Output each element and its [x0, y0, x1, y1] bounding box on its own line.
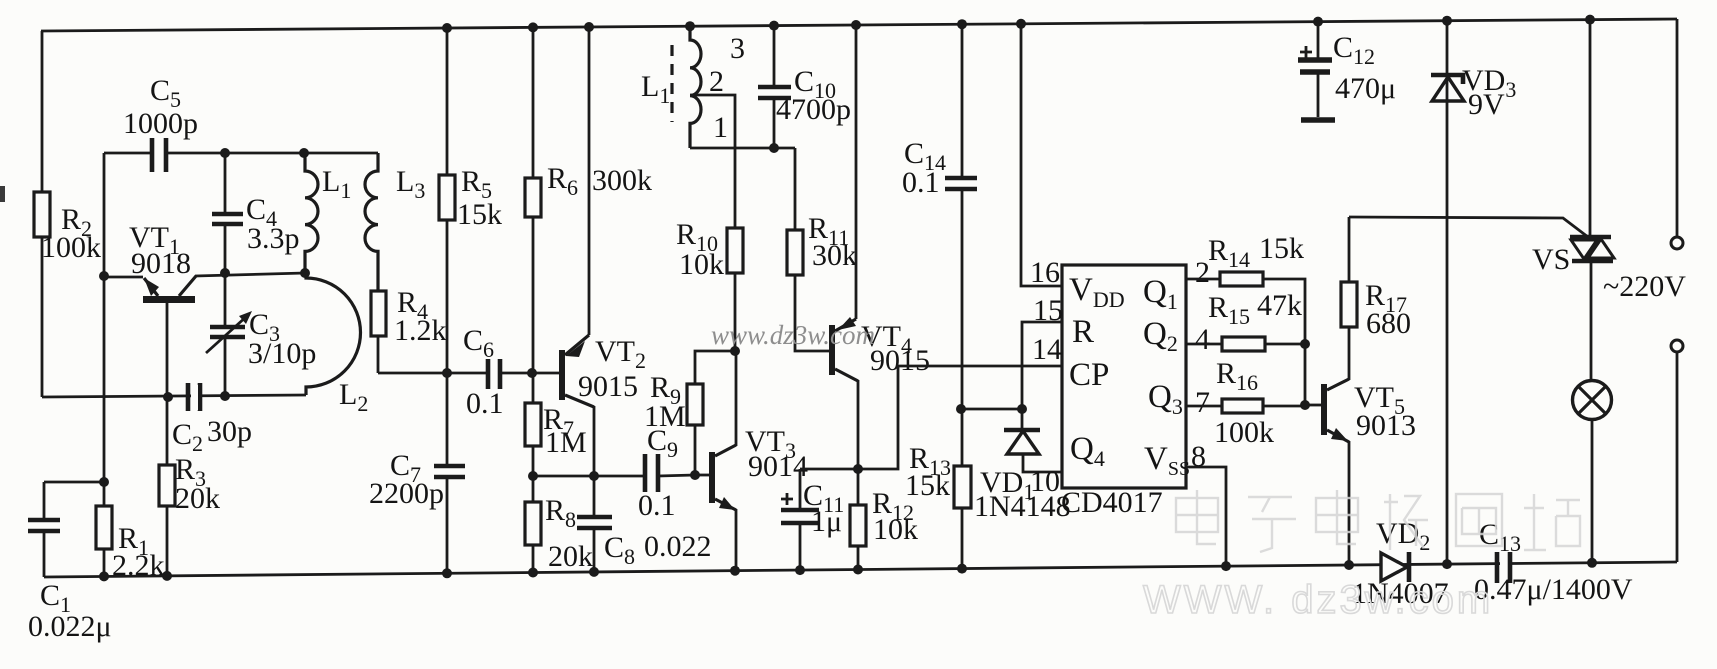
resistor R9: [695, 351, 735, 475]
svg-text:2.2k: 2.2k: [112, 549, 165, 582]
transistor VT2 base bar: [559, 350, 565, 400]
resistor R15: [1222, 337, 1265, 351]
svg-text:VT2: VT2: [595, 335, 646, 373]
svg-text:0.022μ: 0.022μ: [28, 610, 112, 643]
wire: triac to lamp: [1590, 260, 1593, 381]
svg-text:1.2k: 1.2k: [394, 314, 447, 347]
capacitor C5: [152, 138, 166, 172]
resistor R14: [1220, 272, 1263, 286]
svg-text:1: 1: [713, 111, 728, 144]
svg-text:14: 14: [1032, 333, 1062, 366]
resistor R11: [795, 148, 829, 351]
resistor R13: [961, 409, 964, 569]
resistor R7: [525, 403, 541, 446]
capacitor C6: [488, 359, 500, 389]
resistor R1: [103, 482, 106, 576]
resistor R16: [1222, 399, 1263, 413]
wire: Q1 pin 2 to R14: [1186, 278, 1220, 281]
capacitor C3 (trimmer): [210, 327, 245, 337]
wire: lamp to ground rail: [1591, 420, 1594, 563]
wire: Q3 pin 7 to R16: [1186, 405, 1222, 408]
watermark CJK glyph 2: [1248, 497, 1296, 552]
svg-text:10k: 10k: [873, 513, 918, 546]
wire: +9V top supply rail: [41, 19, 1677, 31]
svg-text:1N4148: 1N4148: [974, 490, 1071, 523]
transistor VT4 collector lead: [835, 369, 858, 381]
svg-text:15k: 15k: [1259, 232, 1304, 265]
wire: emitter node vertical C5-left / VT1 emitter / R1: [103, 153, 106, 482]
resistor R8: [525, 502, 541, 545]
capacitor C2: [188, 383, 200, 411]
diode VD1 1N4148: [1021, 409, 1024, 430]
wire: pin 15 R input vertical: [1022, 322, 1062, 409]
wire: ground bottom rail: [44, 562, 1677, 577]
mains terminal 2: [1671, 340, 1683, 352]
transistor VT2 emitter lead with arrow (PNP): [565, 335, 589, 355]
capacitor C4: [212, 214, 243, 224]
svg-text:16: 16: [1030, 256, 1060, 289]
svg-text:1μ: 1μ: [811, 505, 842, 538]
svg-text:2200p: 2200p: [369, 477, 444, 510]
svg-text:9013: 9013: [1356, 409, 1416, 442]
wire: R4 down to VT2 base wire: [377, 336, 380, 373]
wire: audio node horizontal R7/C8/C9/VT3: [533, 475, 695, 476]
inductor L1 (tank coil): [305, 153, 318, 273]
wire: base bus to VT5 base: [1305, 404, 1321, 407]
mains terminal 1: [1671, 237, 1683, 249]
svg-text:7: 7: [1195, 386, 1210, 419]
scan artifact left edge: [0, 186, 5, 202]
svg-text:47k: 47k: [1257, 289, 1302, 322]
svg-text:470μ: 470μ: [1335, 72, 1396, 105]
wire: VT5 emitter to ground rail: [1348, 441, 1351, 565]
triac VS: [1570, 235, 1611, 240]
wire: VT3 base lead: [695, 474, 709, 477]
wire: VT1 emitter to emitter node: [104, 276, 143, 279]
transistor VT5 emitter lead with arrow (NPN): [1327, 430, 1349, 442]
watermark CJK glyph 6: [1524, 494, 1580, 550]
svg-text:0.1: 0.1: [638, 489, 676, 522]
svg-text:20k: 20k: [548, 540, 593, 573]
resistor R4: [371, 291, 386, 336]
watermark CJK glyph 4: [1384, 494, 1428, 550]
svg-text:30p: 30p: [207, 415, 252, 448]
svg-text:1M: 1M: [644, 400, 686, 433]
capacitor C8: [593, 476, 596, 572]
capacitor C11 (electrolytic): [799, 469, 802, 570]
wire: R6/R7/R8 vertical chain: [532, 27, 535, 572]
transistor VT2 collector lead: [565, 395, 594, 407]
capacitor C9: [645, 454, 658, 492]
svg-text:680: 680: [1366, 307, 1411, 340]
inductor L1 detector coil (tapped): [690, 26, 701, 148]
svg-text:0.1: 0.1: [466, 387, 504, 420]
svg-text:R15: R15: [1208, 291, 1250, 329]
svg-text:L2: L2: [339, 378, 368, 416]
wire: tank vertical C4/C3: [224, 153, 227, 396]
capacitor C14: [945, 178, 977, 189]
wire: gate drive from R17 to triac gate: [1349, 217, 1588, 237]
svg-text:L1: L1: [641, 70, 670, 108]
svg-text:0.1: 0.1: [902, 166, 940, 199]
svg-text:C6: C6: [463, 324, 494, 362]
svg-text:~220V: ~220V: [1603, 270, 1686, 303]
junction dots top rail: [442, 23, 452, 33]
wire: R14 to VT5 base bus: [1263, 279, 1305, 405]
svg-text:2: 2: [709, 65, 724, 98]
capacitor C13 on ground rail: [1500, 556, 1508, 569]
svg-text:L3: L3: [396, 165, 425, 203]
svg-text:3/10p: 3/10p: [248, 337, 316, 370]
resistor R10: [727, 228, 743, 273]
wire: VT1 collector to tank bottom node: [195, 273, 305, 276]
diode VD3 zener 9V: [1446, 21, 1449, 565]
svg-text:9V: 9V: [1468, 88, 1505, 121]
wire: right branch from top rail down to mains terminal 1: [1676, 19, 1679, 237]
svg-text:15: 15: [1033, 294, 1063, 327]
wire: coil tap 2 to R10: [690, 95, 735, 228]
svg-text:CP: CP: [1069, 357, 1109, 393]
inductor L2 (feedback arc): [306, 274, 361, 395]
svg-text:15k: 15k: [905, 469, 950, 502]
transistor VT4 base bar: [829, 325, 835, 375]
capacitor C1: [28, 520, 60, 531]
svg-text:100k: 100k: [41, 231, 101, 264]
svg-text:R6: R6: [547, 162, 578, 200]
svg-text:R14: R14: [1208, 234, 1250, 272]
svg-text:C12: C12: [1333, 31, 1375, 69]
wire: VT4 collector down to C11/R12 node: [857, 380, 860, 469]
IC U1 CD4017 box: [1062, 265, 1186, 488]
transistor VT1 emitter lead with arrow: [144, 278, 158, 296]
resistor R3: [166, 397, 169, 576]
wire: VT2 base wire with C6: [378, 372, 559, 375]
transistor VT4 emitter lead with arrow (PNP): [835, 319, 856, 331]
wire: VT1 base bias wire from left rail to C2: [42, 395, 306, 397]
wire: pin 16 VDD from top rail: [1021, 24, 1062, 286]
wire: C5 horizontal link to tank node: [104, 152, 225, 155]
svg-text:1000p: 1000p: [123, 107, 198, 140]
wire: VT1 base lead down to bias node: [166, 303, 169, 397]
svg-text:0.022: 0.022: [644, 530, 712, 563]
svg-text:300k: 300k: [592, 164, 652, 197]
svg-text:R16: R16: [1216, 357, 1258, 395]
wire: VSS pin 8 to ground rail: [1186, 467, 1226, 566]
svg-text:C2: C2: [172, 418, 203, 456]
svg-text:1M: 1M: [545, 426, 587, 459]
transistor VT5 collector lead: [1327, 379, 1349, 390]
wire: right branch from mains terminal 2 down to bottom rail: [1676, 352, 1679, 562]
wire: VT4 emitter vertical from top rail: [855, 25, 858, 319]
wire: VT2 emitter vertical from top rail: [588, 27, 591, 335]
svg-text:100k: 100k: [1214, 416, 1274, 449]
svg-text:9015: 9015: [870, 344, 930, 377]
wire: triac anode from top rail: [1589, 20, 1592, 237]
inductor L1 core dashed line: [670, 45, 673, 122]
transistor VT5 base bar: [1321, 384, 1327, 435]
resistor R6: [525, 178, 541, 217]
transistor VT3 emitter lead with arrow (NPN): [715, 499, 736, 510]
svg-text:9018: 9018: [131, 247, 191, 280]
svg-text:3.3p: 3.3p: [247, 222, 300, 255]
resistor R2: [34, 192, 50, 237]
svg-text:20k: 20k: [175, 482, 220, 515]
wire: VT2 collector down to audio node: [593, 406, 596, 476]
wire: R15 to base bus: [1265, 343, 1305, 346]
svg-text:CD4017: CD4017: [1061, 486, 1163, 519]
wire: C11/R12 node horizontal and CP link to pin 14: [800, 366, 1062, 469]
junction dots middle: [442, 368, 452, 378]
svg-text:www.dz3w.com: www.dz3w.com: [711, 320, 875, 350]
svg-text:L1: L1: [322, 165, 351, 203]
wire: emitter node to R1/C1 tee: [44, 482, 104, 577]
wire: node R13/C14 to reset pin line: [962, 408, 1022, 411]
transistor VT1 base bar: [143, 296, 195, 303]
capacitor C7: [434, 466, 465, 477]
junction dots ground rail: [99, 571, 109, 581]
wire: left rail through R2 from top rail down to base wire: [41, 31, 44, 397]
transistor VT3 base bar: [709, 452, 715, 503]
watermark CJK glyph 3: [1316, 490, 1358, 544]
transistor VT3 collector lead: [715, 445, 736, 456]
wire: VT3 emitter to ground rail: [735, 509, 738, 570]
junction dots oscillator: [220, 148, 230, 158]
wire: R16 to base bus: [1263, 405, 1305, 408]
svg-text:0.47μ/1400V: 0.47μ/1400V: [1474, 573, 1633, 606]
resistor R12: [857, 469, 860, 570]
inductor L3: [365, 153, 378, 291]
wire: coil pin1 bottom wire to R11: [690, 147, 795, 150]
resistor R17: [1348, 217, 1351, 380]
resistor R5: [439, 175, 455, 220]
watermark CJK glyph 1: [1176, 490, 1218, 544]
svg-text:VS: VS: [1532, 243, 1570, 276]
diode VD2 1N4007 on ground rail: [1381, 553, 1407, 581]
svg-text:C8: C8: [604, 531, 635, 569]
wire: tank top wire to L3: [225, 152, 378, 155]
capacitor C10: [773, 25, 776, 148]
watermark CJK glyph 5: [1456, 494, 1502, 546]
capacitor C12 (electrolytic): [1317, 22, 1320, 117]
wire: Q2 pin 4 to R15: [1186, 343, 1222, 346]
svg-text:9015: 9015: [578, 370, 638, 403]
wire: C14/R13 vertical from top rail: [961, 24, 964, 409]
svg-text:4: 4: [1195, 323, 1210, 356]
svg-text:R8: R8: [545, 494, 576, 532]
wire: R5/C7 vertical from top rail to ground: [446, 28, 449, 573]
svg-text:30k: 30k: [812, 239, 857, 272]
svg-text:WWW. dz3w.com: WWW. dz3w.com: [1143, 578, 1493, 622]
svg-text:R: R: [1072, 314, 1094, 350]
lamp EL: [1573, 381, 1612, 420]
svg-text:10k: 10k: [679, 248, 724, 281]
svg-text:VD2: VD2: [1376, 517, 1430, 555]
svg-text:C13: C13: [1479, 518, 1521, 556]
wire: VT3 collector up to R10/R9 node: [735, 351, 738, 446]
svg-text:3: 3: [730, 32, 745, 65]
svg-text:15k: 15k: [457, 198, 502, 231]
transistor VT1 collector lead: [179, 276, 196, 296]
svg-text:4700p: 4700p: [776, 93, 851, 126]
